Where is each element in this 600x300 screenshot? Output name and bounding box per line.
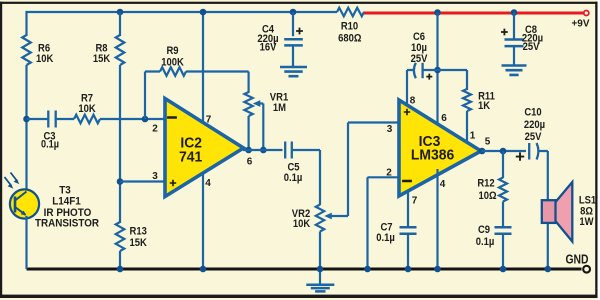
wire VR2 wiper to IC3 pin3 [331, 123, 401, 217]
speaker LS1 body [542, 200, 556, 223]
ground C8 [502, 66, 527, 75]
pin 2 label IC2 [152, 123, 158, 134]
ground rail (black) [27, 268, 582, 271]
wire R11 to pin1 [466, 111, 468, 143]
wire IC3 pin6 supply [436, 13, 438, 126]
wire R9 to VR1 [186, 72, 249, 94]
label VR1 [270, 92, 289, 104]
label R11 value [478, 100, 491, 112]
svg-text:R10: R10 [341, 21, 359, 33]
wire C8 top lead [513, 13, 515, 40]
wire top supply rail (blue) [27, 11, 338, 13]
wire VR1 bottom [248, 116, 250, 150]
node R12 tap [500, 148, 507, 155]
label T3 desc1 [44, 208, 92, 220]
wire VR1 wiper [259, 104, 263, 151]
label R8 [95, 43, 107, 55]
svg-text:1W: 1W [579, 216, 593, 228]
wire C4 top lead [292, 12, 294, 36]
label C6 value2 [411, 53, 428, 65]
wire R8 top lead [119, 12, 121, 36]
node top rail pin7 [200, 9, 207, 16]
label C10 [524, 107, 542, 119]
pin 7 label IC2 [206, 114, 212, 125]
label T3 part [52, 196, 81, 208]
resistor R8 [116, 35, 125, 65]
label C10 value1 [524, 119, 545, 131]
pin 4 label IC3 [440, 179, 446, 190]
wire IC3 pin2 ground leg [368, 177, 401, 269]
label C6 value1 [411, 42, 427, 54]
label VR2 value [293, 218, 311, 230]
wire C7 to ground rail [407, 234, 409, 269]
svg-text:GND: GND [565, 252, 588, 266]
label C4 value1 [257, 33, 278, 45]
label R7 [81, 93, 93, 105]
label LS1 [579, 195, 597, 207]
node R13 ground [117, 266, 124, 273]
light arrow 2 into T3 [11, 173, 20, 185]
node IC3 pin2 ground [364, 266, 371, 273]
label C10 value2 [525, 131, 542, 143]
capacitor C7 [400, 227, 417, 233]
label C8 [525, 24, 537, 36]
C10 plus sign [516, 152, 524, 160]
label C4 value2 [260, 42, 277, 54]
node red rail IC3 supply [434, 9, 441, 16]
svg-text:6: 6 [247, 156, 253, 167]
wire R6 to T3 node [25, 65, 27, 191]
resistor R6 [22, 35, 31, 65]
label C7 [380, 222, 392, 234]
IC2 minus input sign [167, 116, 177, 119]
node VR2 ground [317, 266, 324, 273]
C8 plus sign [501, 29, 508, 36]
label R13 [130, 226, 148, 238]
pin 6 label IC3 [441, 113, 447, 124]
capacitor C6 [414, 63, 416, 78]
svg-text:1M: 1M [273, 102, 286, 114]
capacitor C9 [495, 227, 512, 233]
svg-text:4: 4 [440, 179, 446, 190]
capacitor C3 [48, 111, 55, 128]
node IC3 pin4 ground [434, 266, 441, 273]
wire C9 to ground rail [502, 234, 504, 269]
speaker LS1 horn [555, 182, 572, 242]
svg-text:2: 2 [152, 123, 158, 134]
svg-text:1K: 1K [478, 100, 491, 112]
pin 1 label IC3 [470, 130, 476, 141]
label C5 [287, 162, 299, 174]
pin 3 label IC3 [387, 124, 393, 135]
svg-text:C9: C9 [478, 224, 490, 236]
svg-text:10K: 10K [293, 218, 311, 230]
wire R13 to ground rail [119, 251, 121, 269]
pin 6 label IC2 [247, 156, 253, 167]
light arrow 1 into T3 [5, 177, 14, 189]
label GND [565, 252, 588, 266]
svg-text:100K: 100K [161, 57, 184, 69]
svg-text:10K: 10K [78, 103, 96, 115]
resistor R10 [337, 8, 364, 17]
label VR1 value [273, 102, 286, 114]
label R7 value [78, 103, 96, 115]
label R6 value [36, 53, 54, 65]
wire C10 to speaker [538, 151, 548, 202]
wire R12 to C9 [502, 202, 504, 228]
label R10 [341, 21, 359, 33]
label R12 value [478, 190, 496, 202]
pin 4 label IC2 [205, 178, 211, 189]
svg-text:741: 741 [179, 149, 202, 166]
pin 5 label IC3 [485, 136, 491, 147]
label R8 value [93, 53, 111, 65]
svg-text:15K: 15K [130, 237, 148, 249]
svg-text:7: 7 [412, 195, 418, 206]
svg-text:7: 7 [206, 114, 212, 125]
label C9 [478, 224, 490, 236]
capacitor C8 [505, 40, 524, 47]
wire R9 left leg [145, 72, 160, 120]
op-amp U2 IC3 LM386 [399, 100, 481, 196]
label +9V [571, 18, 589, 29]
red +9V rail [364, 12, 584, 15]
wire C3 to R7 [55, 118, 75, 120]
svg-text:15K: 15K [93, 53, 111, 65]
wire IC3 pin4 to ground [436, 169, 438, 269]
node R8/R13 pin3 tap [117, 178, 124, 185]
svg-text:16V: 16V [260, 42, 277, 54]
capacitor C5 [285, 142, 292, 159]
node C6/R11 supply tap [434, 67, 441, 74]
node C9 ground [500, 266, 507, 273]
svg-text:0.1µ: 0.1µ [476, 236, 495, 248]
resistor R11 [463, 89, 471, 111]
wire R8 to R13 [119, 65, 121, 223]
svg-text:5: 5 [485, 136, 491, 147]
svg-text:R12: R12 [477, 178, 495, 190]
wire C6 right to R11 [423, 70, 468, 90]
resistor R12 [499, 178, 507, 202]
label C8 value2 [523, 41, 540, 53]
IC2 plus input sign [170, 180, 176, 186]
phototransistor T3 [10, 189, 39, 218]
node R6/C3/T3 [23, 116, 30, 123]
svg-text:10K: 10K [36, 53, 54, 65]
svg-text:3: 3 [152, 171, 158, 182]
node VR1 bottom [245, 147, 252, 154]
label C7 value [376, 232, 395, 244]
svg-text:25V: 25V [523, 41, 540, 53]
svg-text:0.1µ: 0.1µ [41, 139, 59, 151]
svg-text:10Ω: 10Ω [478, 190, 496, 202]
VR1 wiper arrow [253, 100, 260, 107]
ground C4 [280, 67, 307, 76]
label LM386 [411, 147, 454, 164]
C4 plus sign [296, 28, 303, 35]
resistor R9 [160, 67, 186, 76]
pin 2 label IC3 [386, 167, 392, 178]
svg-text:R9: R9 [166, 45, 178, 57]
svg-text:3: 3 [387, 124, 393, 135]
wire node to C3 [27, 118, 49, 120]
node R9 tap [142, 116, 149, 123]
svg-text:C10: C10 [524, 107, 542, 119]
pin 7 label IC3 [412, 195, 418, 206]
node top rail R8 [117, 9, 124, 16]
label T3 [59, 185, 71, 197]
wire speaker to ground rail [547, 220, 549, 269]
svg-text:4: 4 [205, 178, 211, 189]
pin 3 label IC2 [152, 171, 158, 182]
svg-text:0.1µ: 0.1µ [376, 232, 395, 244]
node red rail C8 [511, 9, 518, 16]
label C9 value [476, 236, 495, 248]
wire C4 bottom lead [292, 46, 294, 67]
svg-text:8: 8 [410, 95, 416, 106]
svg-text:0.1µ: 0.1µ [284, 172, 303, 184]
wire IC2 pin4 to ground [202, 172, 204, 269]
wire IC3 pin7 to C7 [407, 190, 409, 227]
resistor R7 [74, 115, 100, 124]
VR2 wiper arrow [324, 213, 332, 220]
svg-text:R13: R13 [130, 226, 148, 238]
label VR2 [292, 208, 311, 220]
label IC3 [419, 134, 441, 151]
label R13 value [130, 237, 148, 249]
wire C6 left to pin8 [407, 70, 414, 107]
label 741 [179, 149, 202, 166]
IC3 plus input sign [404, 109, 410, 115]
resistor R13 [116, 222, 125, 251]
C6 plus sign [426, 74, 432, 80]
label C3 [43, 131, 55, 143]
label LS1 value1 [580, 206, 593, 218]
wire VR2 bottom to rail [319, 232, 321, 285]
svg-text:LM386: LM386 [411, 147, 454, 164]
label R11 [478, 91, 495, 103]
capacitor C4 [284, 39, 303, 45]
wire R7 to IC2 pin2 [100, 118, 166, 120]
pot VR2 [316, 205, 324, 232]
label R9 [166, 45, 178, 57]
svg-text:+9V: +9V [571, 18, 589, 29]
op-amp U1 IC2 741 [165, 99, 244, 197]
wire C8 bottom lead [513, 46, 515, 65]
pot VR1 [244, 92, 252, 116]
node VR1 wiper join [260, 147, 267, 154]
ground symbol below rail [306, 285, 334, 292]
label R9 value [161, 57, 184, 69]
pin 8 label IC3 [410, 95, 416, 106]
label R10 value [338, 33, 361, 45]
svg-text:6: 6 [441, 113, 447, 124]
label C5 value [284, 172, 303, 184]
IC3 minus input sign [402, 180, 412, 183]
label C8 value1 [522, 33, 543, 45]
node top rail C4 [290, 9, 297, 16]
+9V terminal [584, 11, 589, 16]
label C4 [262, 24, 274, 36]
wire R12 top lead [502, 151, 504, 178]
node C7 ground [405, 266, 412, 273]
wire IC2 output [243, 149, 283, 151]
wire IC2 pin7 supply [202, 12, 204, 124]
wire IC2 pin3 bias [120, 180, 166, 182]
GND terminal [583, 266, 590, 273]
node speaker ground [545, 266, 552, 273]
svg-text:25V: 25V [525, 131, 542, 143]
label T3 desc2 [35, 218, 100, 230]
label IC2 [180, 135, 202, 152]
label C3 value [41, 139, 59, 151]
svg-text:25V: 25V [411, 53, 428, 65]
svg-text:680Ω: 680Ω [338, 33, 361, 45]
svg-text:2: 2 [386, 167, 392, 178]
wire IC3 output [481, 150, 526, 152]
svg-text:220µ: 220µ [524, 119, 545, 131]
wire C5 to VR2 [292, 150, 320, 205]
label R6 [38, 43, 50, 55]
label LS1 value2 [579, 216, 593, 228]
wire left column top [25, 11, 27, 36]
node IC3 output [479, 148, 486, 155]
svg-text:L14F1: L14F1 [52, 196, 81, 208]
capacitor C10 [528, 143, 530, 160]
label R12 [477, 178, 495, 190]
node IC2 pin4 ground [200, 266, 207, 273]
wire T3 emitter to ground rail [25, 216, 27, 269]
label C6 [413, 31, 425, 43]
svg-text:TRANSISTOR: TRANSISTOR [35, 218, 100, 230]
svg-text:1: 1 [470, 130, 476, 141]
